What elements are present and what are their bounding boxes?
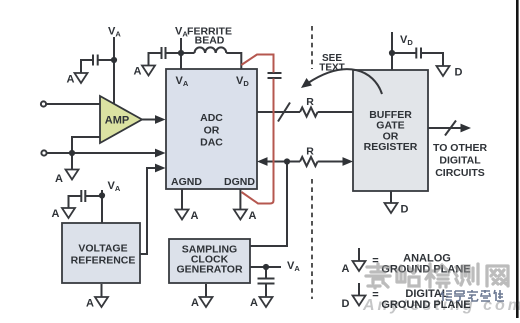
svg-text:R: R [306,96,314,108]
svg-text:A: A [52,208,60,220]
svg-text:A: A [249,210,257,222]
svg-text:REFERENCE: REFERENCE [71,255,136,267]
svg-text:A: A [250,297,258,309]
svg-text:AMP: AMP [105,115,129,127]
svg-text:A: A [55,173,63,185]
svg-text:A: A [191,297,199,309]
svg-text:A: A [67,74,75,86]
svg-text:OR: OR [204,125,220,137]
svg-text:CIRCUITS: CIRCUITS [435,167,485,179]
svg-text:BEAD: BEAD [195,35,225,47]
svg-text:D: D [455,67,463,79]
svg-text:A: A [86,298,94,310]
svg-text:D: D [401,204,409,216]
svg-text:TO OTHER: TO OTHER [433,142,487,154]
svg-text:DGND: DGND [224,176,255,188]
svg-text:ADC: ADC [200,112,223,124]
svg-text:A: A [342,263,350,275]
svg-text:DAC: DAC [200,137,223,149]
svg-text:AGND: AGND [171,176,202,188]
svg-text:D: D [342,298,350,310]
svg-text:GENERATOR: GENERATOR [176,264,243,276]
svg-text:A: A [191,210,199,222]
svg-text:REGISTER: REGISTER [364,141,418,153]
svg-text:Anytesting com: Anytesting com [362,297,520,314]
svg-text:VOLTAGE: VOLTAGE [78,243,127,255]
svg-text:DIGITAL: DIGITAL [439,155,481,167]
svg-text:A: A [134,66,142,78]
svg-text:R: R [306,146,314,158]
svg-text:TEXT: TEXT [319,63,345,74]
